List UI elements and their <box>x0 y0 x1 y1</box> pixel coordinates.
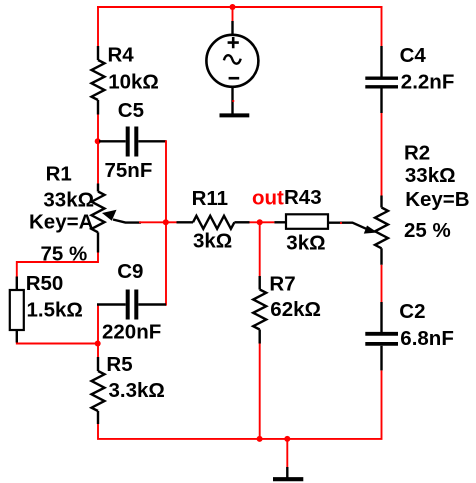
capacitor C4 plates <box>365 78 398 87</box>
AC source sine symbol <box>224 55 241 64</box>
resistor R50 lead top <box>16 277 18 291</box>
potentiometer R1 zigzag <box>92 192 105 233</box>
svg-text:Key=B: Key=B <box>405 188 469 211</box>
svg-text:75nF: 75nF <box>105 159 153 182</box>
svg-text:R2: R2 <box>404 142 430 165</box>
svg-text:3kΩ: 3kΩ <box>193 230 232 253</box>
svg-text:R1: R1 <box>46 163 72 186</box>
capacitor C2 lead top <box>380 302 382 332</box>
svg-text:33kΩ: 33kΩ <box>405 164 456 187</box>
ground lead black <box>286 467 288 478</box>
svg-text:R5: R5 <box>106 353 132 376</box>
wire R1 bottom to R50 <box>17 253 98 277</box>
capacitor C5 lead right <box>138 140 166 142</box>
wire R11 left red <box>166 221 177 223</box>
svg-text:6.8nF: 6.8nF <box>400 327 454 350</box>
node junction out <box>257 219 263 225</box>
AC source V1 circle <box>206 35 258 87</box>
resistor R5 zigzag <box>92 371 105 411</box>
svg-text:62kΩ: 62kΩ <box>270 298 321 321</box>
svg-text:R11: R11 <box>192 187 228 210</box>
svg-text:R4: R4 <box>108 44 135 67</box>
node junction wiper <box>163 219 169 225</box>
node junction top (source) <box>230 4 236 10</box>
wire out to R43 <box>260 221 275 223</box>
wire top horizontal <box>97 6 383 8</box>
svg-text:C9: C9 <box>117 260 143 283</box>
capacitor C2 plates <box>365 334 398 344</box>
wire wiper to junction <box>139 221 166 223</box>
resistor R5 lead top <box>97 344 99 358</box>
capacitor C9 lead left <box>97 303 126 305</box>
svg-text:R7: R7 <box>269 273 295 296</box>
ground under source <box>220 113 250 117</box>
resistor R5 lead top black <box>97 357 99 371</box>
svg-text:33kΩ: 33kΩ <box>43 189 94 212</box>
ground bar bottom <box>273 477 303 481</box>
pin dot source <box>232 100 234 102</box>
potentiometer R2 wiper arrow <box>364 226 378 234</box>
potentiometer R2 lead bottom <box>380 248 382 264</box>
AC source minus sign <box>229 77 240 80</box>
pin dot R43 <box>340 222 342 224</box>
wire ground drop <box>286 439 288 467</box>
wire out down to R7 <box>259 222 261 276</box>
svg-text:out: out <box>252 187 284 210</box>
svg-text:C5: C5 <box>118 99 144 122</box>
potentiometer R1 wiper arrow <box>102 210 117 221</box>
svg-text:220nF: 220nF <box>102 321 161 344</box>
svg-text:Key=A: Key=A <box>29 211 94 234</box>
capacitor C9 plates <box>128 290 137 320</box>
AC source lead bottom <box>231 86 233 113</box>
AC source plus sign <box>228 37 239 48</box>
node junction bottom ground <box>284 436 290 442</box>
resistor R11 lead right <box>234 221 249 223</box>
svg-text:R43: R43 <box>284 186 322 209</box>
svg-text:3.3kΩ: 3.3kΩ <box>109 379 165 402</box>
resistor R7 zigzag <box>253 290 266 330</box>
resistor R4 zigzag <box>92 60 105 100</box>
capacitor C4 lead bottom <box>380 89 382 114</box>
wire mid vertical (C5 to C9) <box>165 140 167 305</box>
capacitor C5 plates <box>128 127 137 157</box>
resistor R50 body <box>10 290 24 330</box>
node junction C5 <box>95 138 101 144</box>
svg-text:25 %: 25 % <box>404 219 451 242</box>
potentiometer R1 wiper wire <box>113 220 141 223</box>
svg-text:C2: C2 <box>399 300 425 323</box>
capacitor C2 lead bottom <box>380 346 382 371</box>
wire right vertical mid <box>381 113 383 196</box>
svg-text:3kΩ: 3kΩ <box>286 232 325 255</box>
wire source drop <box>232 7 234 21</box>
wire R7 down to rail <box>259 344 261 439</box>
potentiometer R1 lead bottom <box>97 232 99 252</box>
resistor R11 lead left <box>177 221 194 223</box>
svg-text:C4: C4 <box>400 44 427 67</box>
capacitor C9 lead right <box>138 303 166 305</box>
node junction bottom-left <box>95 341 101 347</box>
resistor R43 lead left <box>274 221 286 223</box>
svg-text:2.2nF: 2.2nF <box>401 71 455 94</box>
AC source V1 lead top <box>231 21 233 35</box>
resistor R11 zigzag <box>193 216 234 229</box>
potentiometer R2 zigzag <box>375 208 388 249</box>
node junction bottom R7 <box>257 436 263 442</box>
capacitor C5 lead left <box>99 140 126 142</box>
resistor R43 lead right <box>328 223 369 230</box>
wire right vertical (R2 to C2) <box>381 265 383 302</box>
resistor R5 lead bottom <box>97 411 99 424</box>
wire left vertical mid <box>97 115 99 184</box>
resistor R7 lead top <box>259 276 261 290</box>
svg-text:R50: R50 <box>26 272 64 295</box>
wire R50 bottom to junction <box>17 343 98 344</box>
resistor R43 body <box>286 214 328 229</box>
potentiometer R1 lead top <box>97 184 99 192</box>
resistor R50 lead bottom <box>16 330 18 343</box>
resistor R4 lead top <box>97 46 99 60</box>
wire bottom rail <box>98 370 382 439</box>
wire C9 left vertical <box>97 304 99 344</box>
potentiometer R2 lead top <box>380 196 382 208</box>
svg-text:10kΩ: 10kΩ <box>108 71 159 94</box>
wire R11 right red <box>250 221 260 223</box>
capacitor C4 lead top <box>380 46 382 77</box>
wire left vertical top (to R4) <box>97 6 99 46</box>
wire right vertical top (to C4) <box>381 6 383 46</box>
svg-text:1.5kΩ: 1.5kΩ <box>27 299 83 322</box>
resistor R7 lead bottom <box>259 330 261 344</box>
resistor R4 lead bottom <box>97 100 99 115</box>
